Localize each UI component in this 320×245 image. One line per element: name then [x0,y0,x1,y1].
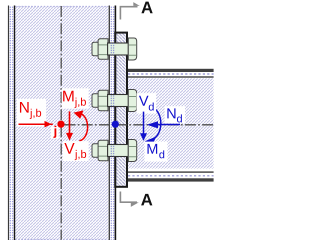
bolt head hex B1 [98,39,108,60]
bolt nut facet lines B1 [129,45,137,55]
label background V_j,b [63,141,89,161]
label M_d [147,144,157,154]
label N_d [167,108,175,118]
column left flange outer line [8,6,10,241]
label background V_d [137,93,157,113]
label V_j,b [64,143,74,154]
beam centerline [65,124,214,126]
bolt row 2 [92,90,137,112]
moment arc M_d [150,107,161,139]
arrowhead M_j,b [74,110,84,118]
beam top flange inner edge [128,76,214,77]
bolt row 3 [92,140,137,162]
label N_j,b [20,102,29,113]
column web hatched area [15,6,109,240]
label background j [51,126,59,138]
label M_j,b [63,91,73,102]
bolt shank B1 [108,43,129,55]
bolt head facet lines B2 [99,96,108,106]
node j dot [57,121,64,128]
column right flange (section, dotted) [110,6,115,240]
label A top [141,2,152,14]
label j [53,126,56,138]
arrow V_d [143,112,145,134]
beam bottom flange outer edge [128,178,214,181]
beam top flange outer edge [128,69,214,72]
bolt row 1 [92,38,137,60]
bolt head facet lines B1 [99,45,108,55]
column left flange inner line [14,6,16,241]
column centerline [60,6,62,240]
bolt nut B3 [128,140,136,162]
arrowhead M_d [145,137,156,146]
column hatch bottom boundary [15,239,109,241]
section line A top [120,2,139,19]
bolt head hex B2 [98,90,108,111]
label background M_d [145,142,168,162]
column right flange inner line [108,6,110,241]
beam bottom flange hidden line [128,175,214,177]
bolt head washer face B2 [92,94,99,108]
label background N_j,b [17,99,46,127]
bolt head washer face B1 [92,42,99,56]
arrow V_j,b [69,111,71,134]
beam bottom flange inner edge [128,171,214,172]
label background M_j,b [62,88,89,108]
column right flange outer line [114,6,116,241]
bolt head hex B3 [98,140,108,161]
bolt shank B2 [108,95,129,107]
bolt nut facet lines B3 [129,147,137,157]
beam top flange hidden line [128,73,214,75]
bolt nut B1 [128,38,136,60]
bolt head facet lines B3 [99,146,108,156]
arrow N_j,b [19,123,53,125]
bolt head washer face B3 [92,144,99,158]
moment arc M_j,b [79,113,87,141]
column left flange (section, dotted) [9,6,14,240]
column hatch top boundary [15,5,109,7]
bolt shank B3 [108,145,129,157]
bolt nut B2 [128,90,136,112]
label A bottom [141,194,152,206]
node dot beam [112,121,119,128]
end plate [115,33,127,187]
section line A bottom [120,192,138,207]
column right flange dots overlay at bolt shanks [110,43,115,55]
label background N_d [165,106,185,123]
arrow N_d [156,124,180,126]
bolt nut facet lines B2 [129,97,137,107]
label V_d [139,96,149,106]
beam web hatched area [128,78,214,168]
